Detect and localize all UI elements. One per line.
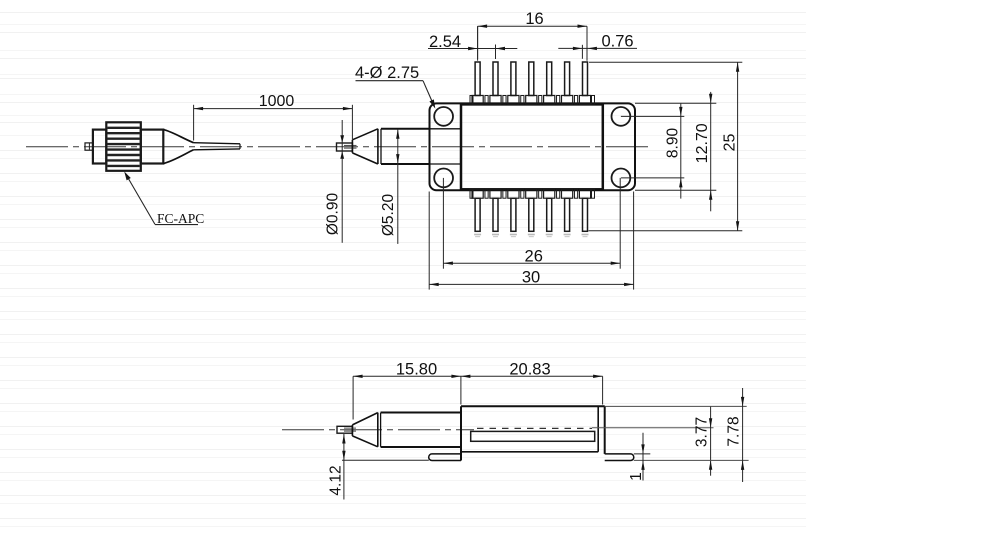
svg-text:2.54: 2.54 [429, 33, 461, 51]
svg-text:8.90: 8.90 [664, 128, 681, 159]
svg-text:4.12: 4.12 [328, 465, 345, 495]
svg-text:26: 26 [525, 248, 543, 266]
svg-text:25: 25 [722, 134, 739, 152]
svg-text:FC-APC: FC-APC [157, 211, 204, 226]
svg-text:0.76: 0.76 [601, 33, 633, 51]
svg-text:15.80: 15.80 [396, 360, 437, 378]
svg-text:12.70: 12.70 [694, 123, 711, 163]
svg-text:16: 16 [525, 10, 543, 28]
svg-text:Ø5.20: Ø5.20 [380, 194, 397, 237]
svg-text:30: 30 [522, 269, 540, 287]
svg-text:1: 1 [628, 472, 645, 481]
svg-text:1000: 1000 [259, 93, 295, 110]
svg-text:20.83: 20.83 [509, 360, 550, 378]
svg-text:4-Ø 2.75: 4-Ø 2.75 [355, 64, 419, 82]
svg-text:Ø0.90: Ø0.90 [325, 193, 342, 236]
svg-text:7.78: 7.78 [725, 416, 742, 446]
svg-text:3.77: 3.77 [693, 417, 710, 447]
